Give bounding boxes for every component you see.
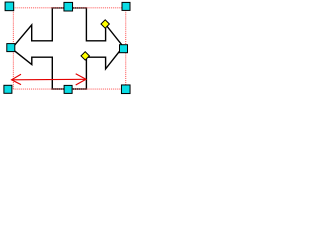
- left-right arrow callout shape outline: [12, 8, 124, 89]
- selection bounding box right dotted edge: [125, 8, 127, 89]
- selection bounding box left dotted edge: [12, 8, 14, 89]
- selection bounding box bottom dotted edge: [13, 88, 125, 90]
- selection handle bottom-left: [4, 85, 12, 93]
- adjustment diamond handle D2 (arrowhead barb corner): [101, 20, 109, 28]
- background: [0, 0, 137, 99]
- adjustment diamond handle D1 (neck corner): [81, 52, 89, 60]
- red arrow left head: [12, 74, 21, 84]
- selection handle top-center: [64, 2, 73, 11]
- selection handle top-right: [122, 2, 130, 10]
- selection handle bottom-right: [121, 85, 130, 94]
- red arrow right head: [76, 74, 86, 85]
- selection bounding box top dotted edge: [13, 7, 125, 9]
- selection handle bottom-center: [64, 85, 72, 93]
- selection handle middle-right (on right arrow tip): [120, 45, 128, 53]
- selection handle top-left: [5, 2, 14, 11]
- selection handle middle-left (on left arrow tip): [7, 44, 15, 52]
- red double-headed drag arrow shaft: [12, 78, 86, 81]
